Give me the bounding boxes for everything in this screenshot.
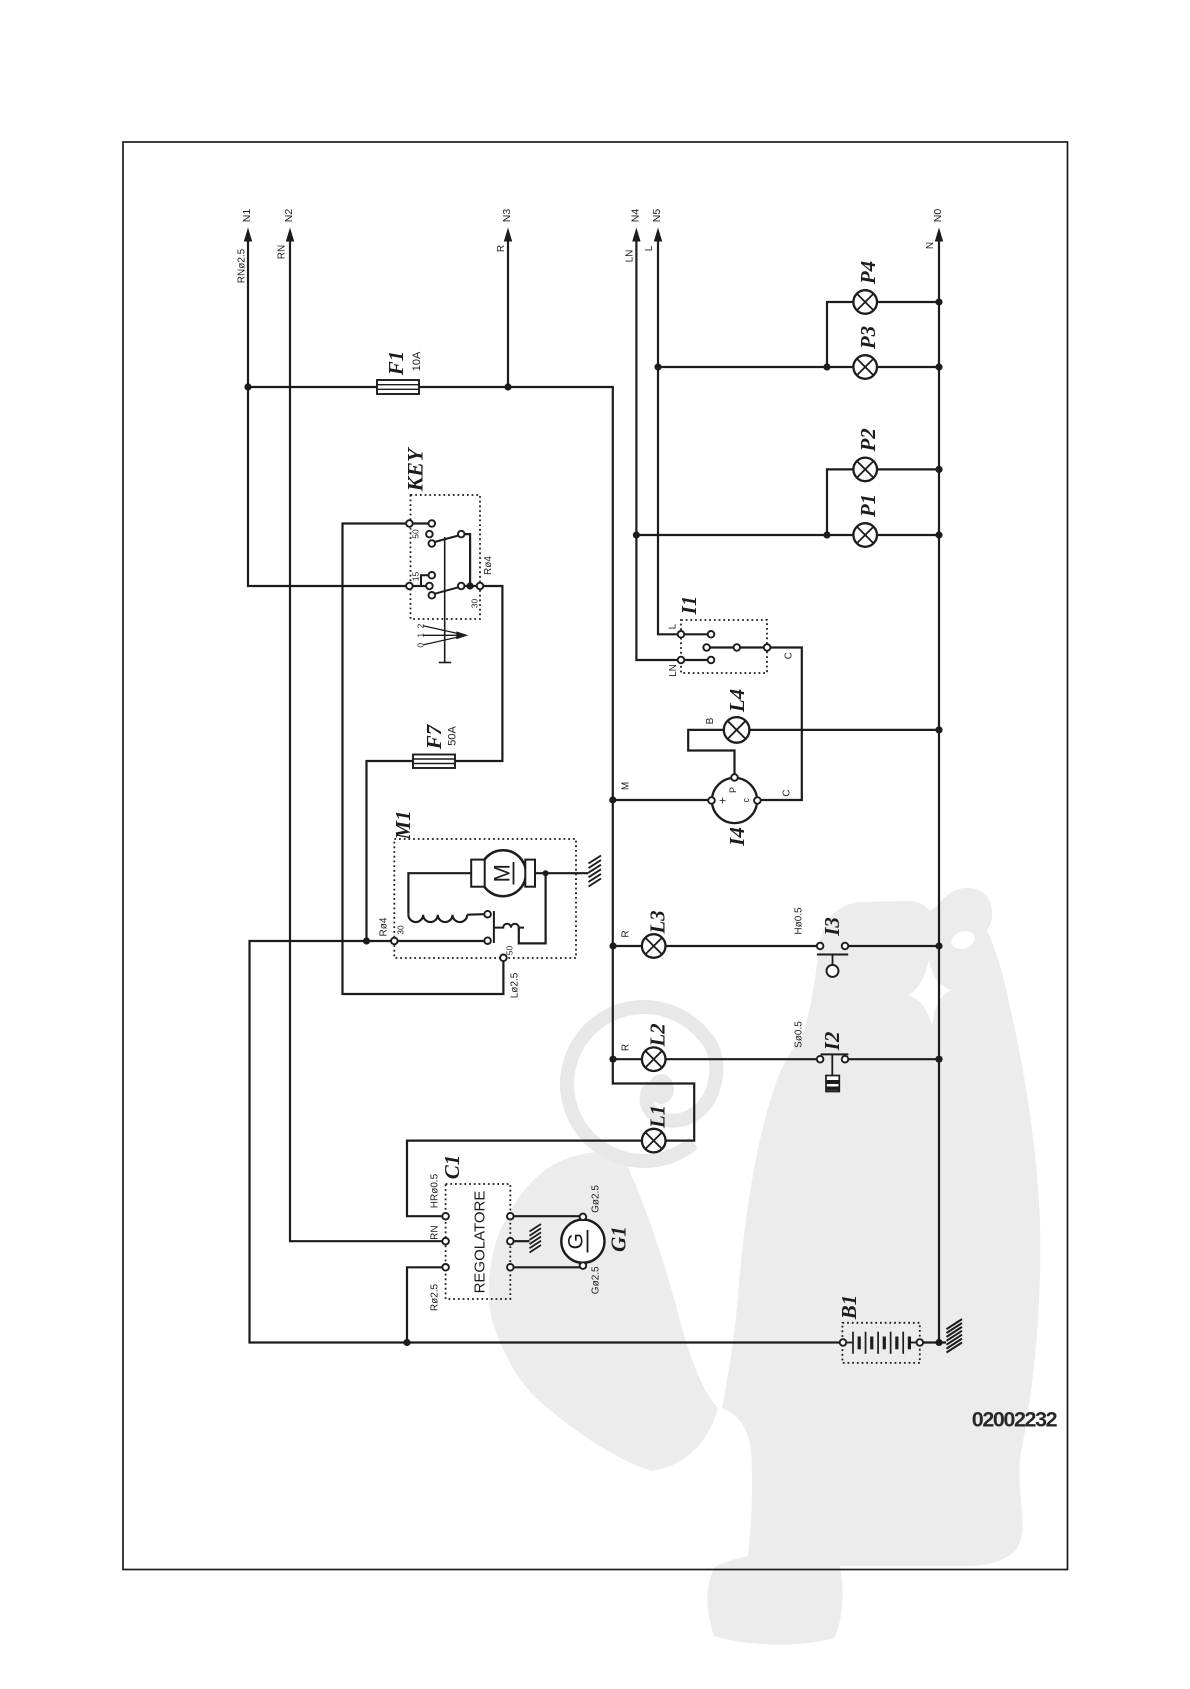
wire F7 left to 30-row junction [367, 761, 414, 941]
watermark cheek star [908, 960, 951, 1026]
svg-text:I3: I3 [820, 917, 844, 937]
wire I1 L stub [684, 633, 707, 635]
svg-text:+: + [716, 797, 730, 804]
wire KEY50 to M1 50 (L wire) [343, 524, 504, 995]
svg-text:M: M [490, 864, 515, 882]
svg-text:B1: B1 [837, 1295, 861, 1321]
svg-text:2: 2 [416, 623, 426, 628]
svg-text:50A: 50A [447, 726, 459, 746]
svg-text:50: 50 [411, 529, 421, 539]
svg-text:Rø2.5: Rø2.5 [429, 1283, 440, 1311]
svg-text:F7: F7 [422, 723, 446, 750]
svg-text:1: 1 [416, 633, 426, 638]
device I4 [712, 778, 757, 823]
watermark ear spot [949, 928, 977, 952]
wire N4 down to I1 LN [636, 239, 677, 660]
M1 relay contact [493, 911, 495, 943]
motor M1 box [394, 839, 576, 958]
svg-text:R: R [621, 1044, 632, 1051]
svg-text:N5: N5 [651, 209, 663, 223]
svg-text:Hø0.5: Hø0.5 [794, 907, 805, 935]
wire I1 mid row + C wire down to I4 [710, 646, 734, 648]
svg-text:P4: P4 [856, 261, 880, 285]
battery cells [852, 1332, 854, 1354]
KEY wires [413, 522, 429, 524]
svg-text:REGOLATORE: REGOLATORE [472, 1191, 489, 1294]
svg-text:L1: L1 [646, 1105, 670, 1129]
node N1 arrow [244, 228, 252, 242]
svg-text:I4: I4 [725, 827, 749, 847]
svg-text:10A: 10A [411, 351, 423, 371]
wire N1 down to F1 row and KEY 15 [248, 239, 409, 586]
border frame [123, 142, 1068, 1570]
svg-text:M1: M1 [391, 810, 415, 840]
wire KEY30 to F7 [455, 586, 502, 761]
svg-text:HRø0.5: HRø0.5 [429, 1173, 440, 1208]
wire M row to I4 [613, 799, 708, 801]
svg-text:Gø2.5: Gø2.5 [591, 1266, 602, 1294]
node N4 arrow [632, 228, 640, 242]
svg-text:I2: I2 [820, 1031, 844, 1051]
lamp L2 [642, 1047, 666, 1071]
regulator C1 box [446, 1184, 511, 1299]
lamp L4 [724, 717, 750, 743]
svg-text:R: R [496, 245, 507, 252]
svg-text:L: L [644, 245, 655, 251]
svg-text:M: M [621, 782, 632, 790]
svg-text:0: 0 [416, 643, 426, 648]
lamp L3 [642, 934, 666, 958]
wire N3 down to F1 row [507, 239, 509, 387]
generator G1 [561, 1220, 604, 1263]
watermark spiral [567, 1007, 716, 1161]
lamp P4 [853, 290, 877, 314]
svg-text:C: C [784, 652, 795, 659]
svg-text:15: 15 [411, 572, 421, 582]
node N3 arrow [504, 228, 512, 242]
svg-text:P2: P2 [856, 428, 880, 453]
switch I2 [821, 1053, 849, 1055]
ground (M1) [589, 879, 602, 887]
fuse F1 [377, 380, 419, 394]
svg-text:L4: L4 [725, 689, 749, 713]
svg-text:30: 30 [396, 925, 406, 935]
node N0 arrow [935, 228, 943, 242]
wire 30 row + left drop to bottom bus [250, 941, 840, 1343]
svg-text:Gø2.5: Gø2.5 [591, 1185, 602, 1213]
svg-text:L: L [667, 623, 678, 629]
battery B1 box [842, 1323, 919, 1363]
wire L1 to C1 HR [407, 1141, 642, 1217]
svg-text:N1: N1 [241, 209, 253, 223]
junction dots [244, 383, 251, 390]
svg-text:P3: P3 [856, 326, 880, 350]
KEY terminals [406, 520, 413, 527]
svg-text:F1: F1 [384, 351, 408, 377]
svg-text:I1: I1 [677, 596, 701, 616]
switch I1 box [681, 620, 767, 673]
svg-text:C: C [782, 789, 793, 796]
wire F1 row right + M bus [419, 387, 694, 1141]
svg-text:L2: L2 [646, 1023, 670, 1048]
C1 ground wire [514, 1240, 530, 1242]
lamp L1 [642, 1129, 666, 1153]
ground (C1) [530, 1245, 542, 1253]
M1 ground wire [535, 872, 589, 874]
wire N2 down to C1 RN [290, 239, 442, 1241]
wire F1 row left [248, 386, 377, 388]
KEY position fan [424, 626, 467, 635]
svg-text:Lø2.5: Lø2.5 [509, 972, 520, 998]
svg-text:Rø4: Rø4 [483, 556, 494, 575]
switch I3 [817, 943, 824, 950]
svg-text:N2: N2 [283, 209, 295, 223]
node N5 arrow [654, 228, 662, 242]
svg-text:G1: G1 [607, 1226, 631, 1252]
wire L3 row [613, 945, 642, 947]
C1 to G1 wires [514, 1215, 580, 1217]
svg-text:P1: P1 [856, 494, 880, 518]
wire P4 branch [827, 302, 853, 367]
svg-text:50: 50 [505, 946, 515, 956]
wire L2 row [613, 1058, 642, 1060]
svg-text:R: R [621, 930, 632, 937]
wire C1 R2.5 to bottom bus [407, 1267, 442, 1342]
wire P1 row [636, 534, 853, 536]
svg-text:B: B [705, 717, 716, 724]
fuse F7 [413, 755, 455, 769]
svg-text:RNø2.5: RNø2.5 [237, 248, 248, 283]
svg-text:N3: N3 [501, 209, 513, 223]
svg-text:N4: N4 [629, 209, 641, 223]
wire N0 bus [938, 239, 940, 1343]
node N2 arrow [286, 228, 294, 242]
wire L4 right to bus [749, 729, 939, 731]
svg-text:C1: C1 [440, 1155, 464, 1180]
lamp P2 [853, 458, 877, 482]
svg-text:RN: RN [429, 1225, 440, 1239]
svg-text:LN: LN [668, 664, 679, 677]
svg-text:c: c [741, 798, 751, 803]
wire L4 left to I4 P [688, 730, 734, 774]
svg-text:Sø0.5: Sø0.5 [794, 1021, 805, 1048]
wire I1 LN stub [684, 659, 707, 661]
svg-text:P: P [728, 787, 738, 793]
watermark marmot body [707, 888, 1040, 1645]
svg-text:Rø4: Rø4 [379, 917, 390, 936]
ground (B1) [947, 1343, 963, 1353]
M1 motor circle [408, 873, 484, 915]
svg-text:RN: RN [277, 245, 288, 259]
svg-text:02002232: 02002232 [972, 1408, 1058, 1432]
M1 field coil [408, 915, 467, 922]
svg-text:L3: L3 [646, 910, 670, 934]
watermark marmot tail [489, 1151, 718, 1471]
svg-text:G: G [565, 1233, 588, 1249]
KEY actuator [444, 537, 446, 663]
lamp P1 [853, 523, 877, 547]
svg-text:30: 30 [470, 599, 480, 609]
wire B1 right to ground [923, 1341, 946, 1343]
svg-text:KEY: KEY [403, 446, 428, 492]
wire P3 row [658, 366, 853, 368]
svg-text:LN: LN [625, 250, 636, 263]
svg-text:N0: N0 [932, 209, 944, 223]
wire N5 down to I1 L [658, 239, 678, 634]
svg-text:N: N [925, 242, 936, 249]
wire P2 branch [827, 469, 853, 535]
lamp P3 [853, 355, 877, 379]
M1 30 wire [398, 940, 485, 942]
switch KEY box [411, 495, 481, 619]
